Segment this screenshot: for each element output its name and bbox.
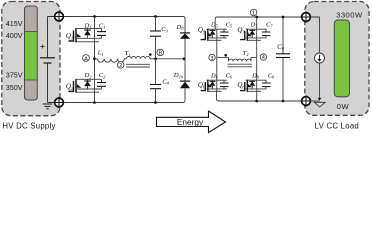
wire Q6 drain: [216, 57, 218, 80]
MOSFET Q2: [69, 79, 102, 103]
svg-text:A: A: [84, 56, 88, 62]
LV CC Load panel: [305, 2, 369, 116]
probe marker 2: [117, 62, 124, 69]
svg-text:3: 3: [211, 56, 214, 62]
wire current source to ground node: [319, 63, 321, 98]
capacitor C8: [262, 80, 271, 89]
capacitor C5: [220, 29, 229, 38]
MOSFET Q5: [201, 29, 227, 58]
T2 core lines: [228, 64, 253, 67]
svg-text:375V: 375V: [6, 71, 23, 80]
diode D8: [249, 80, 255, 89]
node: C0 bottom junction: [282, 100, 285, 103]
HV DC Supply panel: [2, 2, 60, 116]
wire Q8 drain: [256, 57, 258, 80]
inductor L1: [98, 59, 125, 62]
svg-text:1: 1: [252, 11, 255, 17]
chassis ground (LV side): [314, 102, 325, 107]
current arrow into ground node: [318, 98, 322, 101]
T1 polarity dot: [149, 53, 152, 56]
probe marker B: [157, 49, 164, 56]
transformer T1 primary winding: [127, 56, 150, 58]
svg-text:4: 4: [262, 55, 265, 61]
MOSFET Q8: [240, 80, 266, 101]
diode D5: [210, 29, 216, 38]
svg-text:3300W: 3300W: [336, 10, 363, 19]
node: C0 top junction: [282, 16, 285, 19]
HV gauge bar: [25, 6, 38, 100]
wire: left bottom rail: [65, 100, 185, 102]
ground (HV side): [43, 104, 52, 109]
capacitor C7: [262, 29, 271, 38]
svg-text:LV CC Load: LV CC Load: [315, 121, 359, 130]
capacitor C4: [150, 59, 161, 103]
probe marker 1: [250, 9, 257, 17]
T1 core lines: [126, 64, 150, 67]
wire: left top rail: [65, 17, 185, 19]
wire Q7 drain: [256, 17, 258, 29]
wire node A to L1: [95, 58, 98, 60]
capacitor C6: [220, 80, 229, 89]
wire LV- to ground node: [310, 100, 319, 102]
node B rail junction at C-column: [154, 57, 157, 60]
battery plus sign: [41, 45, 45, 49]
wire secondary right: [251, 56, 257, 58]
wire battery to HV+ port: [48, 16, 56, 18]
Energy flow arrow: [157, 111, 226, 133]
svg-text:0W: 0W: [337, 102, 350, 111]
diode D6: [210, 80, 216, 89]
wire: right bottom rail: [217, 91, 302, 101]
port symbol HV-: [53, 97, 64, 108]
probe marker 3: [209, 54, 215, 61]
svg-text:350V: 350V: [6, 83, 23, 92]
node B rail junction at D-column: [183, 57, 186, 60]
diode D9: [180, 18, 190, 59]
diode D1: [84, 28, 91, 38]
MOSFET Q7: [240, 29, 266, 58]
node: Q2 source junction: [93, 101, 96, 104]
wire battery to HV- port: [48, 102, 56, 104]
node: C4 bottom junction: [154, 101, 157, 104]
svg-text:Energy: Energy: [177, 117, 204, 127]
capacitor C1: [97, 28, 106, 38]
port symbol HV+: [53, 11, 64, 22]
wire Q1 drain: [94, 17, 96, 29]
diode D2: [84, 79, 91, 89]
MOSFET Q6: [201, 80, 227, 92]
wire secondary left: [217, 56, 229, 58]
node: C3 top junction: [154, 15, 157, 18]
wire: right top rail: [215, 17, 302, 29]
probe marker 4: [260, 54, 266, 61]
svg-text:HV DC Supply: HV DC Supply: [2, 121, 55, 130]
svg-text:B: B: [158, 51, 162, 57]
node: leg2 top junction: [255, 16, 258, 19]
T2 polarity dot: [224, 54, 227, 57]
wire L1 to transformer: [124, 58, 126, 60]
current source load: [315, 53, 325, 63]
capacitor C3: [150, 17, 161, 59]
wire T1 to node B rail: [150, 58, 185, 60]
diode D7: [249, 29, 255, 38]
diode D10: [180, 59, 190, 101]
wire Q2 drain: [94, 59, 96, 80]
battery HV source: [40, 17, 55, 103]
wire LV+ to current source: [310, 17, 319, 53]
node: Q1 drain junction: [93, 15, 96, 18]
svg-text:2: 2: [119, 63, 122, 69]
capacitor C2: [97, 79, 106, 89]
probe marker A: [83, 55, 90, 63]
MOSFET Q1: [69, 28, 102, 59]
svg-text:415V: 415V: [6, 19, 23, 28]
node: leg2 bottom junction: [255, 100, 258, 103]
svg-text:400V: 400V: [6, 31, 23, 40]
node A junction: [93, 57, 96, 60]
LV gauge bar: [334, 20, 349, 97]
transformer T2 secondary winding: [229, 57, 252, 61]
capacitor C0: [276, 17, 290, 101]
port symbol LV-: [300, 95, 311, 106]
port symbol LV+: [300, 11, 311, 22]
